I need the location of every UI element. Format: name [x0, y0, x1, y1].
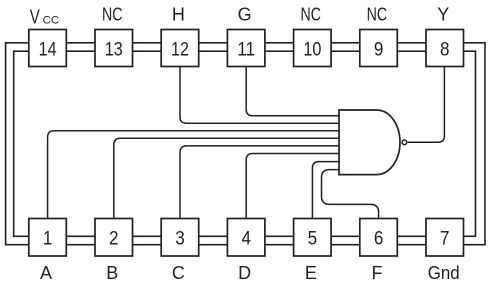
pin 12 box: [161, 30, 199, 67]
svg-text:Gnd: Gnd: [428, 263, 460, 283]
svg-text:8: 8: [440, 39, 450, 61]
svg-text:1: 1: [43, 227, 53, 249]
wire C (pin 3 to gate input): [180, 146, 339, 219]
pin 4 box: [227, 219, 265, 257]
pin 6 box: [360, 219, 398, 257]
svg-text:4: 4: [241, 227, 251, 249]
pin 14 box: [29, 30, 67, 67]
svg-text:12: 12: [171, 39, 189, 61]
pin 2 box: [95, 219, 133, 257]
svg-text:2: 2: [109, 227, 119, 249]
svg-text:Y: Y: [437, 5, 449, 25]
svg-text:D: D: [238, 263, 251, 283]
svg-text:5: 5: [308, 227, 318, 249]
svg-text:NC: NC: [102, 5, 123, 25]
pin 3 box: [161, 219, 199, 257]
pin 11 box: [227, 30, 265, 67]
svg-text:11: 11: [237, 39, 255, 61]
svg-text:F: F: [372, 263, 383, 283]
svg-text:A: A: [40, 263, 52, 283]
wire F (pin 6 routed under gate to gate input): [322, 170, 379, 219]
wire D (pin 4 to gate input): [246, 154, 339, 219]
IC package outline (outer rectangle): [6, 43, 485, 245]
pin 8 box: [426, 30, 464, 67]
svg-text:10: 10: [303, 39, 321, 61]
svg-text:E: E: [305, 263, 317, 283]
svg-text:14: 14: [39, 39, 57, 61]
pin 9 box: [360, 30, 398, 67]
svg-text:H: H: [172, 5, 185, 25]
svg-text:NC: NC: [301, 5, 322, 25]
pin 5 box: [294, 219, 332, 257]
svg-text:3: 3: [175, 227, 185, 249]
wire Y (gate output to pin 8): [408, 67, 445, 143]
wire H (pin 12 to gate input): [180, 67, 339, 124]
svg-text:NC: NC: [367, 5, 388, 25]
IC package outline (inner rectangle): [14, 51, 476, 236]
pin 1 box: [29, 219, 67, 257]
NAND gate output inversion bubble: [402, 140, 407, 145]
svg-text:G: G: [238, 5, 252, 25]
svg-text:CC: CC: [43, 14, 60, 26]
svg-text:9: 9: [374, 39, 384, 61]
svg-text:V: V: [30, 5, 40, 28]
svg-text:13: 13: [105, 39, 123, 61]
wire A (pin 1 to gate input): [48, 131, 339, 219]
svg-text:B: B: [106, 263, 118, 283]
pin 13 box: [95, 30, 133, 67]
svg-text:C: C: [172, 263, 185, 283]
svg-text:7: 7: [440, 227, 450, 249]
NAND gate U1 body: [339, 110, 400, 175]
pin 10 box: [294, 30, 332, 67]
wire G (pin 11 to gate input): [246, 67, 339, 116]
svg-text:6: 6: [374, 227, 384, 249]
wire E (pin 5 to gate input): [312, 162, 339, 219]
wire B (pin 2 to gate input): [114, 138, 339, 218]
pin 7 box: [426, 219, 464, 257]
